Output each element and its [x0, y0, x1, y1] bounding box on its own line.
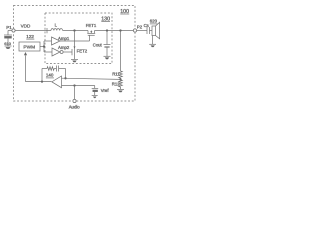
svg-text:PWM: PWM: [23, 45, 35, 51]
node E: [119, 78, 121, 80]
svg-text:Amp2: Amp2: [58, 45, 70, 50]
ground: [149, 44, 156, 47]
wire rail to FET1: [63, 30, 88, 32]
node A: [73, 29, 75, 31]
wire FET1 gate riser: [89, 35, 91, 41]
svg-text:Cs: Cs: [144, 23, 149, 28]
resistor R12: [119, 80, 123, 90]
svg-text:140: 140: [46, 73, 54, 78]
ground: [5, 46, 12, 49]
wire inverting input: [62, 78, 121, 79]
capacitor Cout: [104, 45, 111, 57]
svg-text:Vref: Vref: [101, 88, 110, 93]
wire riser from op-amp to PWM: [26, 55, 52, 81]
wire capacitor branch: [8, 31, 12, 36]
capacitor feedback: [54, 66, 65, 72]
node G: [41, 80, 43, 82]
svg-text:FET1: FET1: [86, 23, 97, 28]
svg-text:R11: R11: [112, 72, 120, 77]
svg-text:P2: P2: [137, 24, 143, 29]
wire feedback: [42, 69, 66, 82]
label 100: [120, 9, 129, 15]
label 620: [150, 19, 158, 24]
capacitor Cs: [147, 27, 152, 34]
terminal P2: [133, 29, 136, 32]
wire PWM output: [40, 41, 52, 52]
svg-text:122: 122: [26, 34, 34, 39]
ground: [71, 59, 78, 62]
resistor feedback: [47, 67, 54, 71]
wire Amp2 output: [63, 51, 72, 53]
transistor FET1: [87, 31, 95, 36]
svg-text:R12: R12: [112, 82, 120, 87]
capacitor 610: [4, 35, 12, 46]
svg-text:Audio: Audio: [69, 104, 81, 109]
wire rail to P2: [95, 30, 134, 32]
label 122: [26, 34, 34, 39]
op-amp Amp2: [52, 48, 63, 56]
op-amp Amp1: [52, 37, 61, 45]
wire FET2 drain: [74, 31, 76, 48]
svg-text:Cout: Cout: [93, 42, 103, 47]
terminal P1: [12, 29, 15, 32]
capacitor Vref: [92, 88, 99, 95]
op-amp U1: [52, 76, 62, 88]
node D: [43, 45, 45, 47]
label 130: [101, 16, 110, 22]
node F: [64, 77, 66, 79]
ground: [104, 56, 111, 59]
wire VDD rail left: [15, 30, 51, 32]
speaker 620: [152, 22, 160, 44]
wire to Cs: [137, 30, 147, 32]
wire R divider drop: [120, 31, 122, 72]
svg-text:610: 610: [4, 41, 11, 46]
svg-text:620: 620: [150, 19, 158, 24]
PWM box: [19, 42, 40, 51]
svg-text:VDD: VDD: [21, 23, 31, 28]
terminal Audio: [73, 99, 76, 102]
node B: [106, 29, 108, 31]
inner dashed box 130: [45, 13, 112, 64]
svg-text:P1: P1: [6, 25, 12, 30]
label 140: [46, 73, 54, 78]
wire audio drop: [74, 86, 76, 100]
svg-text:FET2: FET2: [77, 49, 88, 54]
outer dashed box 100: [14, 6, 136, 102]
transistor FET2: [72, 47, 76, 60]
ground: [117, 89, 124, 92]
svg-text:Amp1: Amp1: [58, 36, 70, 41]
node H: [73, 84, 75, 86]
wire Amp1 output: [60, 40, 90, 42]
wire Cout drop: [106, 31, 108, 45]
ground: [92, 95, 98, 98]
pin tick: [46, 28, 48, 33]
node C: [119, 29, 121, 31]
wire non-inverting input: [62, 86, 95, 89]
resistor R11: [119, 71, 123, 79]
inductor L: [51, 29, 63, 31]
arrow into PWM: [24, 52, 27, 55]
